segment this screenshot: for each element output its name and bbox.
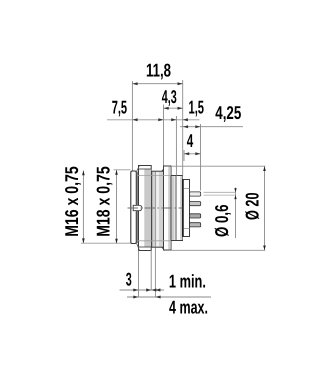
svg-text:Ø 20: Ø 20: [242, 193, 263, 221]
flange disc Ø20: [164, 166, 172, 250]
svg-text:Ø 0,6: Ø 0,6: [211, 205, 232, 238]
front face ring of coupling nut: [131, 171, 138, 244]
dimension 4 (pin length): [184, 130, 201, 161]
solder pin 3: [190, 214, 201, 218]
dimension 4,25: [180, 102, 243, 191]
M16 thread extension bottom: [137, 240, 171, 242]
rear threaded section M16: [171, 176, 183, 241]
dimension 11,8: [132, 60, 182, 176]
dimension 1,5 arrows: [175, 116, 177, 176]
bottom extension lines: [138, 251, 140, 298]
M16 thread extension top: [137, 175, 171, 177]
dimension 3 and 1 min.: [120, 269, 206, 292]
svg-text:4,3: 4,3: [162, 86, 177, 107]
svg-text:4 max.: 4 max.: [169, 297, 208, 318]
M16 x 0,75 dimension line: [61, 166, 85, 243]
slot in nut face: [133, 205, 142, 210]
M18 x 0,75 dimension line: [93, 166, 118, 243]
svg-text:7,5: 7,5: [112, 97, 127, 118]
svg-text:3: 3: [126, 269, 132, 290]
svg-text:4,25: 4,25: [215, 102, 241, 123]
svg-text:1 min.: 1 min.: [169, 271, 206, 292]
rear insulator: [183, 180, 190, 237]
svg-text:4: 4: [187, 130, 194, 151]
thread extension line bottom: [81, 242, 132, 244]
Ø 0,6 pin diameter dimension: [204, 188, 237, 239]
svg-text:M18 x 0,75: M18 x 0,75: [93, 166, 114, 237]
thread extension line top: [114, 169, 131, 171]
svg-text:M16 x 0,75: M16 x 0,75: [61, 166, 82, 237]
solder pin 4: [190, 223, 201, 227]
knurl ring of coupling nut: [137, 166, 152, 251]
svg-text:11,8: 11,8: [146, 60, 171, 81]
solder pin 2: [190, 202, 201, 206]
centerline axis: [128, 207, 183, 209]
dimension 7,5 and 1,5 shared line: [107, 97, 204, 176]
dimension 4 max.: [127, 296, 211, 318]
hex neck behind knurl: [152, 168, 165, 251]
solder pin 1: [190, 192, 201, 196]
dimension 4,3: [162, 86, 183, 166]
svg-text:1,5: 1,5: [189, 97, 205, 118]
Ø 20 flange diameter dimension: [171, 166, 266, 250]
